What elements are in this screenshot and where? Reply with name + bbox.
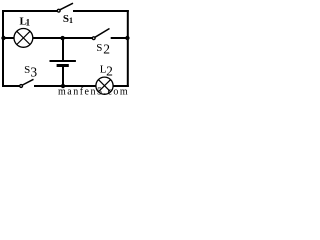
wire bottom-left segment xyxy=(2,85,20,87)
wire battery bottom lead xyxy=(62,67,64,87)
junction dot left node xyxy=(1,36,5,40)
switch S1 xyxy=(57,3,73,12)
wire right side xyxy=(127,10,129,87)
junction dot right node xyxy=(125,36,129,40)
svg-text:manfen5.com: manfen5.com xyxy=(58,87,129,95)
wire top-right segment xyxy=(73,10,129,12)
wire middle branch left lead xyxy=(3,37,14,39)
lamp L2 xyxy=(96,77,113,94)
wire bottom-middle segment xyxy=(34,85,96,87)
wire battery top lead xyxy=(62,38,64,61)
battery cell positive plate xyxy=(50,60,76,62)
switch S2 xyxy=(92,29,109,40)
wire bottom-right segment xyxy=(113,85,129,87)
wire top-left segment xyxy=(2,10,57,12)
lamp L1 xyxy=(14,29,33,48)
svg-text:L1: L1 xyxy=(20,15,31,27)
junction dot battery top node xyxy=(60,36,64,40)
wire left side xyxy=(2,10,4,87)
wire lamp L1 to battery node xyxy=(33,37,63,39)
switch S3 xyxy=(20,79,34,87)
wire switch S2 to right node xyxy=(111,37,128,39)
wire battery node to switch S2 xyxy=(63,37,93,39)
junction dot battery bottom node xyxy=(61,84,65,88)
battery cell negative plate xyxy=(57,64,69,67)
